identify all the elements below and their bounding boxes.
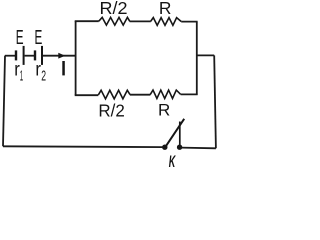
wire: bottom branch between R/2 and R <box>130 94 151 96</box>
label R/2 (bottom branch) <box>98 100 124 120</box>
label r2 <box>35 59 46 84</box>
svg-text:2: 2 <box>41 67 46 84</box>
battery cell E r1 <box>16 46 24 65</box>
svg-text:K: K <box>169 152 177 171</box>
label K <box>169 152 177 171</box>
svg-text:R: R <box>159 0 172 18</box>
svg-text:E: E <box>35 27 43 49</box>
wire: left vertical rail <box>3 56 5 147</box>
switch K <box>162 119 184 150</box>
wire: bottom rail from right corner to switch <box>181 147 216 150</box>
label R/2 (top branch) <box>100 0 128 18</box>
svg-text:R/2: R/2 <box>98 100 124 120</box>
node A: left vertical wire of parallel section <box>75 21 77 95</box>
label R (bottom branch) <box>158 101 170 120</box>
svg-text:R/2: R/2 <box>100 0 128 18</box>
wire: bottom branch to right corner <box>181 93 198 95</box>
wire: top branch to right corner <box>181 21 197 23</box>
resistor R/2 (top branch) <box>99 17 130 25</box>
resistor R/2 (bottom branch) <box>98 90 130 99</box>
wire: segment between cell 1 and cell 2 <box>25 55 34 57</box>
wire: segment from cell 2 to node A with current arrow <box>43 55 76 57</box>
wire: bottom branch lead-in <box>75 94 99 96</box>
node B: right vertical wire of parallel section <box>196 22 198 95</box>
battery cell E r2 <box>35 46 42 65</box>
svg-text:1: 1 <box>20 67 23 84</box>
svg-text:R: R <box>158 101 170 120</box>
wire: top branch between R/2 and R <box>130 20 151 22</box>
resistor R (top branch) <box>151 18 182 26</box>
wire: node B to outer right rail <box>197 54 214 56</box>
label r1 <box>14 59 23 84</box>
label E (cell 1) <box>16 27 24 49</box>
wire: main horizontal battery wire segment from left corner to cell 1 <box>5 55 15 57</box>
label E (cell 2) <box>35 27 43 49</box>
label R (top branch) <box>159 0 172 18</box>
wire: outer right rail down to switch corner <box>214 55 216 148</box>
resistor R (bottom branch) <box>150 90 180 98</box>
label I <box>62 61 65 75</box>
current arrow I <box>58 53 65 59</box>
svg-text:E: E <box>16 27 24 49</box>
wire: bottom rail from switch to left corner <box>3 145 164 148</box>
wire: top branch lead-in <box>75 20 99 22</box>
